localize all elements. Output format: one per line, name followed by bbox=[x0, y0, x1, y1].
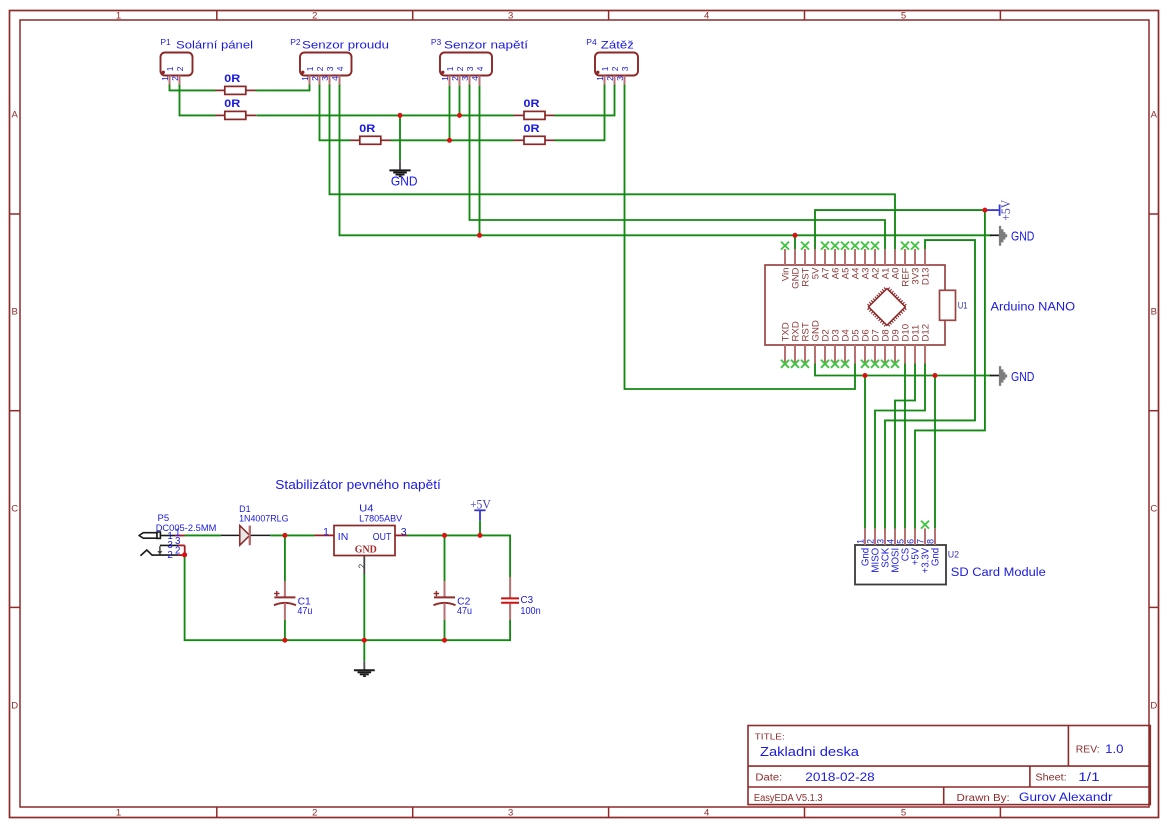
capacitor C3 100n bbox=[501, 577, 541, 620]
wire R2 to R4 bbox=[257, 114, 514, 116]
wire +5V stem bbox=[479, 520, 481, 535]
svg-text:3: 3 bbox=[508, 10, 513, 21]
svg-text:EasyEDA V5.1.3: EasyEDA V5.1.3 bbox=[754, 793, 823, 804]
wire node to C1 bbox=[284, 535, 286, 581]
resistor R1 0R bbox=[214, 73, 256, 94]
svg-text:SD Card Module: SD Card Module bbox=[951, 567, 1046, 579]
svg-text:+5V: +5V bbox=[999, 200, 1013, 221]
svg-text:P4: P4 bbox=[586, 37, 597, 47]
svg-text:0R: 0R bbox=[524, 98, 540, 110]
svg-text:L7805ABV: L7805ABV bbox=[359, 513, 403, 524]
wire P3 pin3 to A1 bbox=[470, 86, 886, 249]
wire node to P3 pin2 bbox=[459, 86, 461, 116]
svg-text:U1: U1 bbox=[958, 301, 968, 312]
wire SD MOSI to D11 bbox=[895, 364, 915, 529]
wire +5V node to SD pin6 bbox=[915, 210, 985, 528]
svg-text:1: 1 bbox=[600, 66, 610, 71]
svg-text:4: 4 bbox=[885, 539, 895, 544]
module U2 (SD Card) bbox=[855, 521, 946, 585]
svg-text:Drawn By:: Drawn By: bbox=[957, 793, 1010, 804]
ground flag GND (right lower) bbox=[990, 366, 1035, 386]
svg-text:D: D bbox=[11, 701, 18, 712]
svg-text:0R: 0R bbox=[224, 73, 240, 85]
svg-text:OUT: OUT bbox=[373, 531, 392, 543]
wire node to C2 bbox=[444, 535, 446, 581]
svg-text:3: 3 bbox=[875, 539, 885, 544]
svg-text:Sheet:: Sheet: bbox=[1035, 773, 1066, 784]
wire GND to SD pin8 bbox=[934, 376, 936, 529]
wire P1 pin1 to R1 bbox=[170, 86, 215, 91]
svg-text:47u: 47u bbox=[297, 606, 312, 617]
svg-text:Gnd: Gnd bbox=[931, 548, 942, 566]
svg-text:3: 3 bbox=[320, 76, 330, 81]
svg-text:Arduino NANO: Arduino NANO bbox=[991, 301, 1076, 313]
svg-text:Gurov Alexandr: Gurov Alexandr bbox=[1019, 790, 1113, 804]
svg-text:2: 2 bbox=[170, 76, 180, 81]
svg-text:0R: 0R bbox=[224, 98, 240, 110]
svg-text:2: 2 bbox=[450, 76, 460, 81]
wire C2 to rail bbox=[444, 620, 446, 640]
wire P2 pin4 to GND flag bbox=[340, 86, 991, 236]
ground flag GND (right upper) bbox=[990, 226, 1035, 246]
svg-text:5: 5 bbox=[901, 10, 906, 21]
wire P3 pin4 to GND net bbox=[479, 86, 481, 236]
wire P2 pin2 to R3 bbox=[320, 86, 350, 141]
svg-text:3: 3 bbox=[615, 76, 625, 81]
svg-text:6: 6 bbox=[905, 539, 915, 544]
svg-text:Stabilizátor pevného napětí: Stabilizátor pevného napětí bbox=[275, 478, 441, 492]
wire U4 OUT to C3 bbox=[407, 535, 510, 577]
wire Arduino GND bottom bbox=[815, 364, 991, 376]
svg-text:8: 8 bbox=[925, 539, 935, 544]
regulator U4 L7805ABV bbox=[315, 503, 408, 574]
resistor R2 0R bbox=[214, 98, 256, 119]
svg-text:3: 3 bbox=[401, 526, 407, 538]
svg-text:2: 2 bbox=[310, 76, 320, 81]
svg-text:2: 2 bbox=[312, 807, 317, 818]
svg-text:100n: 100n bbox=[520, 606, 540, 617]
wire ground rail bbox=[185, 555, 511, 640]
wire P4 pin3 to D5 bbox=[625, 86, 856, 389]
wire GND net to Arduino GND pin bbox=[794, 235, 796, 249]
svg-text:C3: C3 bbox=[521, 595, 534, 606]
wire node to P3 pin1 bbox=[449, 86, 451, 141]
wire P2 pin3 to A0 bbox=[330, 86, 896, 249]
svg-text:GND: GND bbox=[391, 175, 418, 189]
wire node to ground stem bbox=[399, 115, 401, 160]
svg-text:4: 4 bbox=[335, 66, 345, 71]
op-amp U1 (Arduino NANO body) bbox=[765, 242, 956, 368]
title block bbox=[748, 726, 1150, 805]
svg-text:P2: P2 bbox=[290, 37, 301, 47]
svg-text:3: 3 bbox=[465, 66, 475, 71]
resistor R5 0R bbox=[514, 123, 556, 144]
wire R5 to P4 pin1 bbox=[556, 86, 605, 141]
capacitor C1 47u bbox=[274, 581, 313, 620]
svg-text:+5V: +5V bbox=[470, 497, 491, 511]
power flag +5V (stabilizer) bbox=[470, 497, 491, 520]
svg-text:1: 1 bbox=[305, 66, 315, 71]
svg-text:C: C bbox=[11, 504, 18, 515]
wire R3 to R5 bbox=[391, 139, 514, 141]
ground (earth symbol, stabilizer) bbox=[354, 661, 375, 676]
connector P4 bbox=[586, 37, 638, 86]
svg-text:GND: GND bbox=[355, 545, 377, 556]
svg-text:2: 2 bbox=[610, 66, 620, 71]
svg-text:D13: D13 bbox=[920, 268, 931, 286]
resistor R4 0R bbox=[514, 98, 556, 119]
svg-text:1: 1 bbox=[160, 76, 170, 81]
wire C1 to rail bbox=[284, 620, 286, 640]
svg-text:GND: GND bbox=[1011, 230, 1034, 244]
svg-text:D: D bbox=[1150, 701, 1157, 712]
svg-text:0R: 0R bbox=[524, 123, 540, 135]
wire P5 pin1 to D1 bbox=[185, 534, 222, 536]
wire P1 pin2 to R2 bbox=[180, 86, 215, 116]
ground GND (earth symbol) bbox=[389, 160, 417, 188]
svg-text:4: 4 bbox=[475, 66, 485, 71]
svg-text:P3: P3 bbox=[431, 37, 442, 47]
connector P1 bbox=[160, 37, 253, 86]
svg-text:Senzor proudu: Senzor proudu bbox=[302, 39, 389, 51]
svg-text:U2: U2 bbox=[948, 550, 959, 561]
svg-text:1N4007RLG: 1N4007RLG bbox=[239, 514, 288, 525]
power flag +5V (rotated) bbox=[987, 200, 1014, 221]
svg-text:1: 1 bbox=[116, 10, 121, 21]
wire 5V pin to +5V node bbox=[815, 210, 985, 249]
svg-text:7: 7 bbox=[915, 539, 925, 544]
svg-text:C: C bbox=[1150, 504, 1157, 515]
connector P5 DC005-2.5MM bbox=[139, 513, 216, 561]
svg-text:1: 1 bbox=[445, 66, 455, 71]
svg-text:4: 4 bbox=[470, 76, 480, 81]
resistor R3 0R bbox=[349, 123, 391, 144]
svg-text:1: 1 bbox=[116, 807, 121, 818]
wire junctions bbox=[398, 113, 403, 118]
svg-text:Solární pánel: Solární pánel bbox=[176, 39, 253, 51]
svg-text:2: 2 bbox=[455, 66, 465, 71]
svg-text:1: 1 bbox=[323, 526, 329, 538]
wire U4 GND to rail bbox=[363, 574, 365, 640]
svg-text:Zátěž: Zátěž bbox=[601, 39, 634, 51]
svg-text:2: 2 bbox=[175, 546, 180, 557]
svg-text:Zakladni deska: Zakladni deska bbox=[760, 744, 860, 759]
svg-text:TITLE:: TITLE: bbox=[755, 732, 785, 742]
svg-text:A: A bbox=[1151, 110, 1158, 121]
svg-text:2018-02-28: 2018-02-28 bbox=[805, 772, 874, 784]
svg-text:47u: 47u bbox=[457, 606, 472, 617]
wire rail to earth bbox=[363, 640, 365, 661]
diode D1 1N4007RLG bbox=[221, 504, 289, 545]
svg-text:1: 1 bbox=[300, 76, 310, 81]
svg-text:Senzor napětí: Senzor napětí bbox=[444, 39, 528, 51]
svg-text:4: 4 bbox=[704, 807, 709, 818]
svg-text:2: 2 bbox=[167, 550, 172, 561]
connector P3 bbox=[431, 37, 528, 86]
svg-text:IN: IN bbox=[338, 531, 349, 543]
wire SD CS to D10 bbox=[904, 364, 906, 529]
svg-text:2: 2 bbox=[315, 66, 325, 71]
svg-text:A: A bbox=[12, 110, 19, 121]
svg-text:4: 4 bbox=[330, 76, 340, 81]
svg-text:1.0: 1.0 bbox=[1105, 744, 1123, 756]
svg-text:5: 5 bbox=[901, 807, 906, 818]
svg-text:D12: D12 bbox=[920, 324, 931, 342]
connector P2 bbox=[290, 37, 389, 86]
svg-text:1: 1 bbox=[440, 76, 450, 81]
svg-text:1: 1 bbox=[165, 66, 175, 71]
wire D13 to SD SCK bbox=[885, 240, 975, 528]
svg-text:1: 1 bbox=[595, 76, 605, 81]
svg-text:DC005-2.5MM: DC005-2.5MM bbox=[156, 523, 217, 534]
svg-text:REV:: REV: bbox=[1076, 745, 1100, 756]
wire R1 to P2 pin1 bbox=[257, 86, 310, 91]
svg-text:2: 2 bbox=[865, 539, 875, 544]
svg-text:2: 2 bbox=[175, 66, 185, 71]
svg-text:3: 3 bbox=[325, 66, 335, 71]
svg-text:B: B bbox=[12, 307, 18, 318]
svg-text:0R: 0R bbox=[359, 123, 375, 135]
svg-text:Date:: Date: bbox=[755, 773, 782, 784]
svg-text:2: 2 bbox=[605, 76, 615, 81]
wire D1 to U4 IN bbox=[270, 534, 314, 536]
svg-text:3: 3 bbox=[460, 76, 470, 81]
svg-text:P1: P1 bbox=[160, 37, 171, 47]
svg-text:4: 4 bbox=[704, 10, 709, 21]
svg-text:GND: GND bbox=[1011, 370, 1034, 384]
svg-text:3: 3 bbox=[508, 807, 513, 818]
capacitor C2 47u bbox=[434, 581, 473, 620]
wire SD MISO to D12 bbox=[875, 364, 925, 529]
svg-text:2: 2 bbox=[312, 10, 317, 21]
svg-text:3: 3 bbox=[620, 66, 630, 71]
svg-text:B: B bbox=[1151, 307, 1157, 318]
wire R4 to P4 pin2 bbox=[556, 86, 615, 116]
svg-text:5: 5 bbox=[895, 539, 905, 544]
svg-text:2: 2 bbox=[357, 564, 367, 569]
wire GND to SD pin1 bbox=[864, 376, 866, 529]
svg-text:1/1: 1/1 bbox=[1078, 772, 1099, 784]
svg-text:1: 1 bbox=[855, 539, 865, 544]
